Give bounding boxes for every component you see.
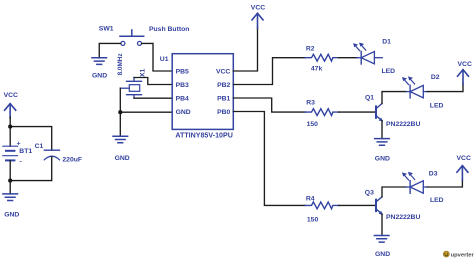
upverter logo (443, 251, 474, 258)
power VCC (D2) (458, 61, 472, 84)
transistor Q3 (365, 190, 421, 222)
wire R2 to D1 (339, 57, 358, 59)
svg-text:R3: R3 (306, 100, 315, 107)
svg-text:PB3: PB3 (176, 82, 189, 89)
ground (crystal) (113, 136, 130, 162)
svg-text:D2: D2 (431, 74, 440, 81)
power VCC (U1) (251, 4, 265, 28)
svg-text:upverter: upverter (451, 252, 474, 258)
wire Q3 collector to D3 (382, 187, 406, 197)
LED D2 (402, 74, 443, 109)
svg-text:47k: 47k (311, 66, 323, 73)
svg-text:150: 150 (307, 121, 319, 128)
wire Q3 emitter to ground (381, 214, 383, 236)
svg-text:GND: GND (375, 156, 390, 163)
svg-text:PN2222BU: PN2222BU (386, 214, 420, 221)
power VCC (battery branch) (4, 92, 18, 118)
wire VCC to BT1 top (9, 117, 11, 146)
node junction BT1/C1/GND (8, 179, 12, 183)
op-amp U1 ATTINY85V-10PU (160, 54, 233, 140)
resistor R4 (305, 195, 339, 223)
wire X1 top to U1 PB3 (134, 78, 172, 85)
wire Q1 emitter to ground (381, 121, 383, 139)
ground (Q1) (375, 139, 390, 163)
wire Q1 collector to D2 (382, 92, 406, 104)
svg-text:VCC: VCC (251, 4, 265, 11)
wire VCC node to C1 top (10, 127, 52, 151)
svg-text:PB4: PB4 (176, 95, 189, 102)
svg-text:PB2: PB2 (217, 82, 230, 89)
svg-text:R2: R2 (306, 46, 315, 53)
wire D2 to VCC (427, 83, 463, 92)
LED D1 (353, 38, 395, 74)
svg-text:VCC: VCC (458, 61, 472, 68)
svg-text:GND: GND (176, 109, 191, 116)
svg-text:GND: GND (4, 211, 19, 218)
wire U1 PB1 to R3 (233, 98, 305, 112)
transistor Q1 (365, 95, 420, 128)
svg-text:SW1: SW1 (99, 26, 114, 33)
svg-text:PB5: PB5 (176, 68, 189, 75)
svg-text:D3: D3 (429, 170, 438, 177)
svg-text:VCC: VCC (457, 155, 471, 162)
wire U1 PB0 to R4 (233, 112, 305, 206)
wire SW1 right contact to U1 PB5 (142, 43, 173, 71)
svg-text:PB1: PB1 (217, 95, 230, 102)
svg-text:U1: U1 (160, 56, 169, 63)
svg-text:GND: GND (92, 72, 107, 79)
power VCC (D3) (457, 155, 471, 180)
svg-text:LED: LED (430, 103, 444, 110)
ground (Q3) (374, 236, 390, 259)
wire SW1 left contact to ground (99, 43, 121, 58)
svg-text:-: - (20, 158, 22, 165)
svg-text:GND: GND (115, 155, 130, 162)
svg-text:LED: LED (430, 197, 444, 204)
svg-text:8.0MHz: 8.0MHz (117, 53, 124, 75)
svg-text:220uF: 220uF (62, 156, 82, 163)
wire BT1 bottom to ground rail (9, 161, 11, 181)
svg-text:VCC: VCC (216, 68, 230, 75)
svg-text:+: + (17, 141, 21, 148)
svg-text:Push Button: Push Button (149, 26, 189, 33)
svg-text:GND: GND (375, 251, 390, 258)
battery BT1 (3, 141, 33, 166)
crystal X1 8.0MHz (117, 53, 147, 98)
wire D3 to VCC (427, 179, 462, 187)
wire U1 PB2 to R2 (233, 58, 305, 85)
svg-text:ATTINY85V-10PU: ATTINY85V-10PU (175, 131, 232, 139)
node junction VCC/BT1/C1 (8, 125, 12, 129)
wire C1 bottom to ground rail (10, 157, 52, 181)
svg-text:VCC: VCC (4, 92, 18, 99)
wire U1 VCC pin up (233, 27, 257, 71)
ground (battery) (3, 194, 19, 219)
svg-text:BT1: BT1 (19, 148, 32, 155)
svg-text:PN2222BU: PN2222BU (386, 121, 420, 128)
svg-text:C1: C1 (35, 143, 44, 150)
wire X1 bottom to U1 PB4 (134, 97, 172, 99)
node junction X1/U1 GND (118, 110, 122, 114)
svg-text:D1: D1 (382, 38, 391, 45)
svg-text:Q1: Q1 (365, 95, 374, 102)
resistor R2 (305, 46, 339, 73)
svg-text:X1: X1 (140, 68, 147, 77)
svg-text:LED: LED (382, 68, 396, 75)
switch SW1 push button (99, 26, 190, 46)
wire R4 to Q3 base (339, 204, 375, 206)
LED D3 (402, 170, 444, 204)
wire to battery ground (9, 181, 11, 194)
wire R3 to Q1 base (339, 111, 375, 113)
ground (switch) (92, 58, 107, 80)
svg-text:150: 150 (307, 216, 319, 223)
capacitor C1 (35, 143, 82, 163)
svg-text:Q3: Q3 (365, 190, 374, 197)
wire X1 case to ground / U1 GND (120, 88, 172, 135)
resistor R3 (305, 100, 339, 128)
svg-text:PB0: PB0 (217, 109, 230, 116)
